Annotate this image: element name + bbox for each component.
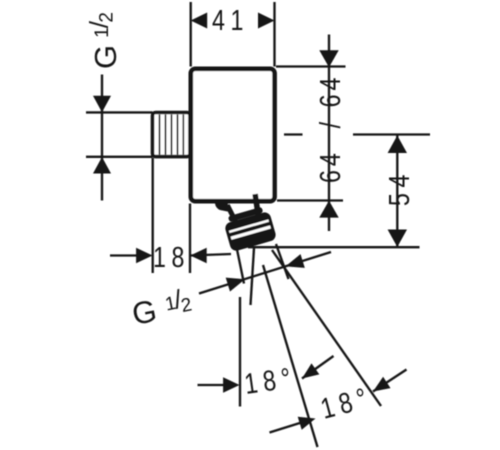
angle dim 2 arrow left [298,417,316,430]
nozzle group [212,187,277,253]
angle dim 1 leader left [198,384,226,386]
dim 18 extension left [152,158,154,273]
dim G1/2 left arrow up [93,157,111,174]
axis line 36deg [272,250,381,406]
dim G1/2 left extension bottom [86,156,153,158]
dim 18 extension right [189,204,191,274]
dim 41 arrow left [191,13,208,29]
body centre tick [284,133,303,135]
collar flange [215,201,228,212]
svg-text:18°: 18° [317,380,376,425]
dim G1/2 left arrow down [93,96,111,113]
svg-text:18°: 18° [242,361,298,401]
angle dim 1 leader right [302,356,334,379]
nut highlight stripes [229,221,268,232]
nozzle neck right edge [252,194,260,215]
dim 18 arrow right [190,248,206,264]
svg-text:G1/2: G1/2 [128,282,194,332]
dim 64/64 extension top [276,65,346,67]
threaded wall connector [153,113,191,157]
outlet cone edge left [237,247,245,284]
flange ring bar [228,207,263,222]
dim 54 line [396,135,398,247]
svg-text:54: 54 [382,169,415,206]
dim G1/2 left line [101,75,103,201]
dim G1/2 cone arrow right [286,254,305,268]
svg-text:18: 18 [153,240,190,273]
dim 54 arrow up [388,136,407,154]
angle dim 1 arrow left [223,377,239,393]
angle dim 2 arrow right [373,377,391,392]
dim 64/64 extension bottom [277,199,343,201]
svg-text:G1/2: G1/2 [84,12,123,69]
union nut [224,211,277,252]
dim 64/64 arrow down [319,50,338,67]
dim G1/2 left extension top [86,111,153,113]
dim 41 extension right [273,2,275,67]
nozzle neck left edge [227,204,235,222]
dim 18 leader right [190,254,231,256]
svg-text:41: 41 [212,3,249,36]
axis line 18deg [263,265,318,447]
dim G1/2 cone arrow left [226,278,245,292]
dim G1/2 cone line [199,252,331,294]
dim 64/64 line [328,35,330,232]
wall plate body [191,69,275,201]
connector thread hatch [160,115,184,155]
dim 54 extension top [353,133,430,135]
svg-text:64 / 64: 64 / 64 [313,74,346,183]
angle dim 2 leader left [270,422,304,433]
dim 18 arrow left [136,248,152,264]
dim 54 extension bottom / mouth level line [248,246,420,248]
outlet cone edge middle [251,248,255,305]
dim 41 arrow right [258,13,275,29]
dim 54 arrow down [388,230,407,248]
dim 18 leader left [110,254,137,256]
axis line 0deg [239,297,241,407]
outlet cone edge right [276,244,289,279]
angle dim 2 leader right [373,370,407,392]
dim 64/64 arrow up [319,201,338,218]
dim 41 extension left [190,2,192,67]
angle dim 1 arrow right [302,363,319,378]
